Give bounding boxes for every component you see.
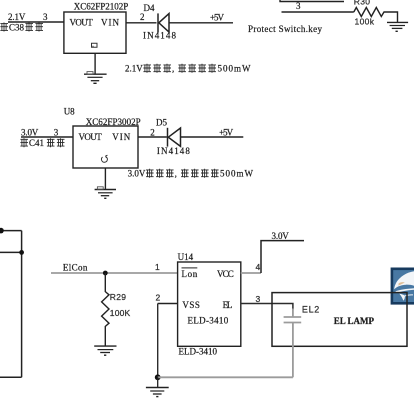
pin-1 mark glyph [92, 43, 98, 47]
comment 3.0V稳压管 驱动能力500mW [128, 169, 254, 179]
svg-text:2.1V: 2.1V [125, 64, 143, 74]
svg-text:IN4148: IN4148 [143, 31, 177, 41]
svg-text:VIN: VIN [101, 17, 120, 27]
wire to +5V [169, 22, 233, 24]
resistor R30 [354, 8, 398, 23]
svg-text:,: , [175, 169, 177, 179]
svg-text:ELD-3410: ELD-3410 [188, 316, 229, 326]
comment 接C38正极 [0, 23, 43, 33]
svg-text:2.1V: 2.1V [8, 12, 26, 22]
regulator box 1 [64, 12, 126, 53]
EL LAMP box [272, 293, 407, 347]
svg-text:2: 2 [156, 292, 161, 302]
svg-text:ElCon: ElCon [63, 262, 88, 272]
svg-text:3: 3 [43, 12, 48, 22]
svg-text:3.0V: 3.0V [21, 127, 39, 137]
IC U14 box [178, 262, 241, 346]
capacitor EL2 [284, 309, 302, 378]
junction dot R29 [103, 271, 108, 276]
wire pin2 [138, 136, 167, 138]
svg-text:EL LAMP: EL LAMP [334, 316, 375, 326]
svg-text:U14: U14 [178, 252, 194, 262]
svg-text:500mW: 500mW [218, 64, 252, 74]
wire left stub B [0, 251, 22, 253]
wire left stub A [0, 230, 22, 232]
svg-text:3.0V: 3.0V [128, 169, 146, 179]
svg-text:3: 3 [256, 294, 261, 304]
svg-text:D5: D5 [156, 118, 167, 128]
resistor R29 [102, 273, 109, 346]
wire 3.0V net [261, 241, 304, 273]
svg-text:VIN: VIN [112, 132, 131, 142]
svg-text:C41: C41 [29, 138, 44, 148]
svg-text:+5V: +5V [210, 13, 225, 23]
comment 接C41 正极 [20, 138, 64, 148]
wire pin2 [158, 303, 178, 305]
svg-text:VOUT: VOUT [79, 132, 103, 142]
comment 2.1V稳压管 驱动能力500mW [125, 64, 251, 74]
wire to R30 [282, 11, 354, 13]
wire gnd stub [104, 168, 106, 190]
svg-text:EL2: EL2 [302, 304, 319, 314]
ground U14 [146, 377, 169, 396]
wire pin4 [241, 272, 261, 274]
svg-text:+5V: +5V [219, 127, 234, 137]
junction dot gnd [155, 374, 161, 380]
pin-1 mark glyph [101, 155, 107, 162]
junction dot [0, 228, 4, 234]
diode D5 [168, 128, 181, 147]
svg-text:VSS: VSS [182, 300, 200, 310]
wire left bottom [0, 376, 22, 378]
svg-text:R29: R29 [110, 292, 126, 302]
svg-text:ELD-3410: ELD-3410 [179, 347, 218, 357]
svg-text:IN4148: IN4148 [157, 146, 191, 156]
wire top net [280, 0, 344, 2]
svg-text:EL: EL [223, 300, 233, 310]
regulator box U8 [73, 126, 138, 168]
svg-text:3: 3 [296, 1, 301, 11]
ground [95, 187, 116, 199]
svg-text:100k: 100k [355, 17, 375, 27]
wire ElCon net [51, 272, 178, 274]
svg-text:Lon: Lon [182, 269, 198, 279]
diode D4 [158, 13, 169, 32]
svg-text:3: 3 [54, 127, 59, 137]
svg-text:C38: C38 [9, 23, 25, 33]
svg-text:VOUT: VOUT [70, 17, 94, 27]
svg-text:VCC: VCC [217, 269, 234, 279]
svg-text:R30: R30 [354, 0, 370, 7]
junction dot [19, 250, 24, 255]
svg-text:,: , [172, 64, 174, 74]
wire pin2 [126, 22, 157, 24]
svg-text:500mW: 500mW [220, 169, 254, 179]
wire 2.1V net [8, 21, 64, 23]
ground R29 [94, 346, 116, 355]
ground [84, 72, 107, 84]
svg-text:2: 2 [150, 127, 155, 137]
svg-text:2: 2 [140, 12, 145, 22]
svg-text:3.0V: 3.0V [272, 231, 290, 241]
svg-text:U8: U8 [64, 107, 75, 117]
svg-text:Protect Switch.key: Protect Switch.key [248, 24, 323, 34]
ground [387, 22, 408, 31]
svg-text:D4: D4 [144, 3, 155, 13]
svg-text:1: 1 [155, 262, 160, 272]
program icon (blue bird) [392, 269, 414, 304]
wire pin2 to gnd vertical [157, 304, 159, 378]
svg-text:XC62FP2102P: XC62FP2102P [74, 2, 129, 12]
wire 3.0V net [21, 136, 73, 138]
wire gnd stub [94, 53, 96, 74]
svg-text:100K: 100K [110, 308, 131, 318]
wire gnd horizontal [158, 376, 293, 378]
wire pin3 [241, 304, 293, 310]
svg-text:4: 4 [256, 262, 261, 272]
wire left vertical [21, 231, 23, 378]
wire to +5V [181, 136, 244, 138]
